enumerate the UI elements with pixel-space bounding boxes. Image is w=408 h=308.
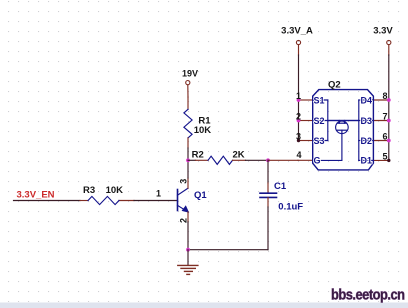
wire 3.3V down to pins bbox=[388, 55, 390, 160]
resistor R3 bbox=[80, 200, 134, 202]
wire C1 down to bottom bbox=[267, 207, 269, 250]
svg-text:3: 3 bbox=[178, 179, 188, 184]
S2-D3 line over circle bbox=[328, 120, 359, 122]
power port 19V bbox=[186, 81, 190, 85]
wire emitter to bottom bbox=[187, 222, 189, 250]
chip internal lines bbox=[313, 100, 374, 160]
wire R3 to Q1 base bbox=[134, 200, 178, 202]
node junction R1/R2 bbox=[186, 158, 190, 162]
resistor R1 bbox=[187, 97, 189, 109]
svg-text:8: 8 bbox=[382, 91, 387, 101]
svg-text:4: 4 bbox=[296, 150, 301, 160]
chip pin labels bbox=[314, 95, 373, 165]
svg-text:C1: C1 bbox=[274, 181, 287, 192]
wire R2 to node bbox=[246, 159, 269, 161]
svg-text:1: 1 bbox=[156, 188, 161, 198]
svg-text:D4: D4 bbox=[361, 95, 373, 105]
wire 3.3V_EN to R3 bbox=[14, 200, 81, 202]
svg-text:D2: D2 bbox=[361, 136, 373, 146]
svg-text:S1: S1 bbox=[314, 95, 325, 105]
wire 3.3V_A down to pins bbox=[298, 55, 300, 141]
svg-text:7: 7 bbox=[382, 112, 387, 122]
chip Q2 pins left bbox=[299, 100, 313, 141]
gate line bbox=[313, 134, 342, 161]
svg-text:3: 3 bbox=[296, 132, 301, 142]
bottom wire bbox=[188, 249, 268, 251]
svg-text:G: G bbox=[314, 156, 321, 166]
svg-text:19V: 19V bbox=[182, 69, 198, 79]
chip Q2 pins right bbox=[373, 100, 388, 160]
bottom edge strip bbox=[0, 303, 408, 308]
svg-text:6: 6 bbox=[382, 132, 387, 142]
svg-text:Q2: Q2 bbox=[328, 80, 341, 91]
svg-text:3.3V: 3.3V bbox=[373, 26, 393, 37]
transistor Q1 bbox=[178, 188, 189, 212]
svg-text:R2: R2 bbox=[192, 149, 204, 160]
Q1 collector pin bbox=[187, 178, 189, 188]
wire junction to Q1 collector bbox=[187, 160, 189, 178]
wire node to chip pin 4 bbox=[268, 159, 298, 161]
svg-text:bbs.eetop.cn: bbs.eetop.cn bbox=[331, 286, 405, 303]
svg-text:2: 2 bbox=[178, 218, 188, 223]
pin 4 stub bbox=[298, 159, 313, 161]
wire R1 to junction bbox=[187, 148, 189, 160]
svg-text:5: 5 bbox=[382, 151, 387, 161]
Q1 emitter pin bbox=[187, 212, 189, 222]
svg-text:2: 2 bbox=[296, 112, 301, 122]
svg-text:3.3V_EN: 3.3V_EN bbox=[17, 190, 55, 201]
mosfet M1 circle bbox=[336, 121, 349, 134]
svg-text:3.3V_A: 3.3V_A bbox=[281, 26, 313, 37]
svg-text:D1: D1 bbox=[361, 156, 373, 166]
junction dots on left wire bbox=[297, 98, 301, 102]
capacitor C1 bbox=[267, 160, 269, 183]
resistor R2 bbox=[188, 159, 196, 161]
svg-text:1: 1 bbox=[296, 91, 301, 101]
ground bbox=[178, 250, 198, 275]
node emitter/ground bbox=[186, 248, 190, 252]
svg-text:10K: 10K bbox=[106, 185, 124, 196]
svg-text:R3: R3 bbox=[83, 185, 95, 196]
svg-text:S3: S3 bbox=[314, 136, 325, 146]
svg-text:2K: 2K bbox=[233, 149, 245, 160]
junction dots on right wire bbox=[387, 98, 391, 102]
svg-text:D3: D3 bbox=[361, 116, 373, 126]
svg-text:10K: 10K bbox=[194, 125, 212, 136]
left bus bbox=[327, 100, 329, 141]
svg-text:0.1uF: 0.1uF bbox=[278, 202, 303, 213]
node C1/pin4 bbox=[266, 158, 270, 162]
svg-text:Q1: Q1 bbox=[194, 190, 207, 201]
chip Q2 body bbox=[313, 90, 374, 170]
S2-D3 through line bbox=[313, 120, 374, 122]
right bus bbox=[358, 100, 360, 160]
svg-text:S2: S2 bbox=[314, 116, 325, 126]
